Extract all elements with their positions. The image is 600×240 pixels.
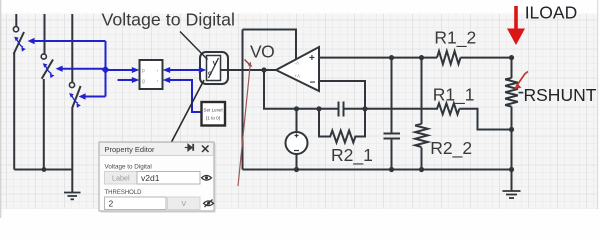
wire: blue to switch S3 bbox=[79, 93, 106, 99]
pin icon bbox=[185, 144, 194, 151]
label: R2_1 bbox=[331, 145, 373, 166]
svg-text:V: V bbox=[181, 199, 186, 208]
wire: blue bus to logic block bbox=[106, 67, 140, 73]
resistor R1_1 bbox=[437, 103, 459, 114]
label: ILOAD bbox=[525, 2, 578, 22]
svg-text:Property Editor: Property Editor bbox=[105, 145, 156, 154]
wire: V2D output to op-amp (VO net) bbox=[221, 69, 277, 71]
svg-text:−: − bbox=[310, 78, 316, 89]
pointer line from label to V2D1 bbox=[180, 32, 208, 60]
wire: feedback top bbox=[243, 30, 297, 61]
ground (left) bbox=[64, 193, 81, 200]
switch S3 blade bbox=[72, 86, 81, 109]
svg-text:+Λ: +Λ bbox=[295, 74, 301, 79]
svg-text:THRESHOLD: THRESHOLD bbox=[105, 190, 143, 196]
wire: mid horizontal (cap section left) bbox=[319, 108, 338, 110]
set-level source box bbox=[202, 102, 226, 126]
probe arrow at RSHUNT bbox=[514, 72, 528, 93]
switch S2 line bbox=[43, 14, 46, 170]
svg-text:ILOAD: ILOAD bbox=[525, 2, 578, 22]
svg-text:RSHUNT: RSHUNT bbox=[524, 85, 597, 105]
svg-text:(1 to 0): (1 to 0) bbox=[206, 116, 221, 121]
svg-text:2: 2 bbox=[109, 199, 114, 209]
svg-text:o: o bbox=[208, 70, 212, 77]
junction on switch rail bbox=[42, 167, 47, 172]
switch S2 blade bbox=[42, 60, 53, 79]
svg-text:Set Level: Set Level bbox=[203, 108, 222, 113]
wire: op-amp minus output bbox=[319, 81, 365, 109]
eye icon bbox=[202, 176, 212, 181]
switch S1 blade bbox=[14, 32, 24, 54]
voltage-to-digital converter V2D1 bbox=[200, 52, 228, 84]
svg-text:v2d1: v2d1 bbox=[141, 173, 160, 183]
svg-text:p: p bbox=[142, 68, 145, 74]
wire: blue to switch S1 bbox=[28, 38, 106, 44]
wire: ground branch vertical (left of amp) bbox=[242, 30, 244, 170]
wire: R2_2 to rail bbox=[421, 148, 423, 170]
voltage source V1 bbox=[286, 132, 308, 170]
right window edge bbox=[597, 0, 599, 209]
op-amp U2 bbox=[276, 47, 319, 91]
wire: op-amp plus output to R1_2 bbox=[319, 57, 437, 59]
wire: shunt top bbox=[511, 58, 513, 78]
wire: shunt bottom to rail bbox=[511, 107, 513, 191]
ILOAD arrow bbox=[507, 6, 525, 45]
wire: cap to rail bbox=[391, 139, 393, 170]
svg-text:-Λ: -Λ bbox=[295, 61, 300, 66]
label: RSHUNT bbox=[524, 85, 597, 105]
wire: R2_2 branch vertical bbox=[421, 58, 423, 124]
label: VO bbox=[250, 42, 274, 62]
svg-text:R2_2: R2_2 bbox=[430, 138, 472, 159]
resistor R2_1 loop bbox=[319, 109, 365, 143]
junction on blue bus bbox=[102, 66, 110, 74]
wire: blue stub to logic block lower pin bbox=[118, 77, 140, 83]
resistor R2_2 bbox=[415, 124, 428, 147]
svg-text:VO: VO bbox=[250, 42, 274, 62]
svg-text:R1_1: R1_1 bbox=[433, 85, 475, 106]
logic block U1 bbox=[140, 60, 163, 89]
resistor R1_2 bbox=[437, 51, 460, 64]
svg-text:Voltage to Digital: Voltage to Digital bbox=[105, 164, 152, 171]
svg-text:V: V bbox=[213, 61, 218, 68]
ground rail bbox=[243, 169, 512, 171]
switch S3 circle bbox=[69, 82, 74, 87]
wire: logic block to V2D (upper) bbox=[163, 67, 207, 73]
svg-text:+: + bbox=[309, 53, 315, 64]
svg-text:g: g bbox=[142, 79, 145, 85]
wire: R1_2 to ILOAD node bbox=[461, 57, 512, 59]
wire: bottom rail of switch bank bbox=[14, 169, 72, 171]
label: Voltage to Digital bbox=[102, 10, 235, 30]
switch S1 line bbox=[14, 14, 16, 170]
label: R1_2 bbox=[434, 28, 476, 49]
label: R2_2 bbox=[430, 138, 472, 159]
svg-text:R2_1: R2_1 bbox=[331, 145, 373, 166]
left window edge bbox=[0, 0, 2, 218]
svg-text:Voltage to Digital: Voltage to Digital bbox=[102, 10, 235, 30]
actuator arrow on S1 bbox=[14, 37, 26, 52]
eye-slash icon bbox=[204, 200, 214, 208]
capacitor C2 plates bbox=[384, 134, 401, 139]
switch S2 circle bbox=[41, 54, 46, 59]
wire: mid horizontal to R1_1 bbox=[365, 108, 438, 110]
switch S1 circle bbox=[13, 27, 18, 32]
capacitor C1 plates bbox=[339, 102, 344, 117]
wire: logic block lower to set-level box bbox=[163, 77, 201, 112]
actuator arrow on S2 bbox=[43, 63, 55, 78]
junction: VO node bbox=[261, 67, 266, 72]
wire: blue to switch S2 bbox=[56, 66, 106, 72]
wire: cap right lead bbox=[344, 108, 365, 110]
wire: R1_1 to shunt bottom node bbox=[459, 109, 511, 130]
wire: cap branch vertical bbox=[391, 58, 393, 133]
svg-text:Label: Label bbox=[112, 174, 130, 183]
pointer arrow to Property Editor bbox=[168, 80, 204, 149]
ground (right) bbox=[503, 191, 521, 198]
switch S3 line bbox=[71, 14, 73, 170]
probe leader line (dark red) bbox=[238, 62, 251, 186]
svg-text:R1_2: R1_2 bbox=[434, 28, 476, 49]
wire: ground stub bbox=[71, 170, 73, 193]
voltage source V1 stub top bbox=[296, 109, 298, 132]
junction dots bottom bbox=[294, 127, 514, 172]
actuator arrow on S3 bbox=[69, 93, 81, 108]
junction dots top row bbox=[389, 55, 514, 60]
junction dots mid row bbox=[294, 106, 368, 111]
resistor RSHUNT bbox=[505, 78, 518, 107]
wire: VO node down bbox=[264, 70, 319, 109]
wire: blue bus vertical bbox=[105, 41, 107, 97]
close icon bbox=[202, 146, 209, 153]
label: R1_1 bbox=[433, 85, 475, 106]
probe arrow at VO bbox=[245, 60, 253, 68]
